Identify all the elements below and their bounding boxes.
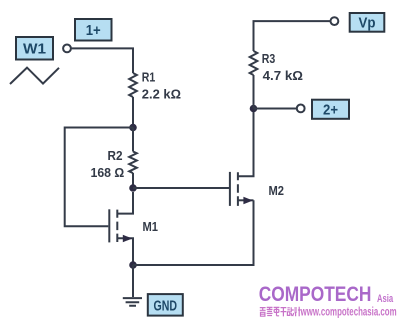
svg-text:www.compotechasia.com: www.compotechasia.com <box>300 304 397 318</box>
svg-text:168 Ω: 168 Ω <box>91 165 125 180</box>
svg-text:4.7 kΩ: 4.7 kΩ <box>263 68 303 83</box>
node B junction <box>129 184 137 192</box>
resistor R2 <box>129 152 137 174</box>
logo tagline CJK glyph 6 <box>294 307 300 316</box>
box 2+ <box>312 100 349 119</box>
svg-text:Vp: Vp <box>359 14 376 31</box>
logo tagline CJK glyph 5 <box>287 307 293 316</box>
ground <box>123 265 142 306</box>
svg-text:2.2 kΩ: 2.2 kΩ <box>142 87 181 102</box>
transistor M1 <box>109 192 133 265</box>
svg-text:R3: R3 <box>262 51 276 66</box>
transistor M2 <box>230 112 254 206</box>
node D junction (drain of M2 / R3) <box>250 105 258 113</box>
node C junction (source of M1) <box>129 261 137 269</box>
box GND <box>148 294 183 316</box>
svg-text:W1: W1 <box>23 41 46 58</box>
wire R3 to terminal Vp <box>254 21 331 51</box>
waveform triangle W1 <box>10 68 59 84</box>
logo tagline CJK glyph 3 <box>274 307 280 315</box>
box W1 <box>16 37 53 60</box>
wire node D to terminal 2+ <box>254 108 297 110</box>
svg-text:GND: GND <box>154 299 178 315</box>
svg-text:M2: M2 <box>269 183 285 198</box>
terminal circle 2+ <box>297 105 305 113</box>
svg-text:M1: M1 <box>143 219 159 234</box>
logo tagline CJK glyph 4 <box>281 308 287 317</box>
svg-text:2+: 2+ <box>323 101 338 118</box>
resistor R1 <box>129 73 137 97</box>
svg-text:R1: R1 <box>142 70 156 85</box>
terminal circle Vp <box>331 17 339 25</box>
wire node D to R3 <box>253 75 255 109</box>
svg-text:COMPOTECH: COMPOTECH <box>259 281 372 306</box>
box 1+ <box>75 19 112 41</box>
wire input to R1 <box>71 48 133 73</box>
wire R1 to node A <box>132 97 134 128</box>
terminal circle 1+ <box>63 45 71 53</box>
node A junction <box>129 124 137 132</box>
wire node B to M2 gate <box>133 187 230 189</box>
svg-text:Asia: Asia <box>377 293 394 305</box>
logo tagline CJK glyph 1 <box>260 308 266 317</box>
resistor R3 <box>250 51 258 75</box>
logo tagline CJK glyph 2 <box>267 307 273 316</box>
wire node C to M2 source <box>133 200 254 265</box>
svg-text:1+: 1+ <box>86 22 101 39</box>
svg-text:R2: R2 <box>108 148 123 163</box>
wire node A to M1 gate (left branch) <box>65 128 133 227</box>
wire R2 to node B <box>132 173 134 188</box>
wire node A to R2 <box>132 128 134 152</box>
box Vp <box>350 13 385 32</box>
